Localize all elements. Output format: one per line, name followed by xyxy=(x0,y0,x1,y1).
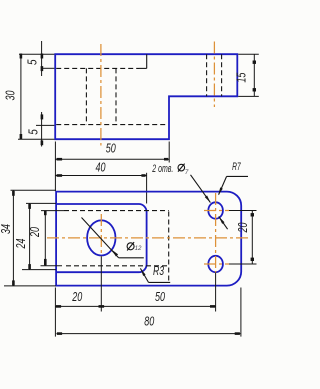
svg-text:20: 20 xyxy=(72,289,83,304)
svg-text:7: 7 xyxy=(185,169,189,176)
svg-text:20: 20 xyxy=(27,226,42,237)
svg-text:5: 5 xyxy=(25,59,40,65)
svg-text:2 отв.: 2 отв. xyxy=(152,163,174,175)
svg-text:30: 30 xyxy=(3,90,18,101)
svg-text:R7: R7 xyxy=(232,161,241,173)
svg-text:34: 34 xyxy=(0,224,13,234)
svg-text:20: 20 xyxy=(235,222,250,233)
svg-text:5: 5 xyxy=(26,129,41,135)
svg-text:15: 15 xyxy=(234,72,249,83)
svg-text:50: 50 xyxy=(155,289,166,304)
svg-text:12: 12 xyxy=(135,245,142,252)
svg-text:R3: R3 xyxy=(153,263,165,278)
svg-text:40: 40 xyxy=(96,160,107,175)
svg-text:80: 80 xyxy=(144,314,155,329)
svg-text:24: 24 xyxy=(13,239,28,250)
svg-text:50: 50 xyxy=(106,141,117,156)
